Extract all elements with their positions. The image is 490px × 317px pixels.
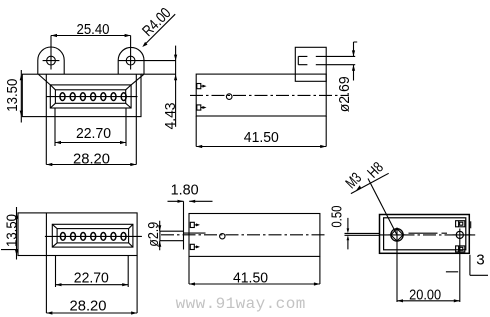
extension line across right ear bbox=[119, 60, 176, 62]
svg-text:41.50: 41.50 bbox=[244, 129, 279, 146]
right extension down bbox=[136, 256, 138, 314]
top bracket box bbox=[295, 47, 326, 81]
clip top bbox=[197, 84, 201, 89]
offset line bbox=[184, 232, 206, 234]
svg-text:13.50: 13.50 bbox=[4, 214, 21, 247]
tick 20.00 right bbox=[454, 299, 460, 302]
pin flange edge / 1.80 extension bbox=[183, 201, 185, 249]
pin block bottom-right bbox=[456, 246, 465, 252]
svg-text:25.40: 25.40 bbox=[77, 21, 110, 38]
center line bbox=[190, 94, 349, 96]
arrow 13.50b top bbox=[15, 213, 18, 219]
M3 tapped hole bbox=[391, 229, 403, 241]
arrows view1 bbox=[20, 34, 178, 166]
dim 22.70 extensions bbox=[55, 108, 126, 146]
svg-text:20.00: 20.00 bbox=[409, 287, 441, 304]
41.50 extension box bbox=[189, 256, 320, 284]
dim 2.69 line bbox=[354, 42, 358, 81]
clip top bbox=[190, 222, 194, 227]
clip bottom bbox=[197, 105, 201, 110]
stub tick right of housing bbox=[470, 221, 472, 228]
svg-text:1.80: 1.80 bbox=[171, 182, 199, 199]
svg-text:22.70: 22.70 bbox=[76, 125, 111, 142]
dim 1.80 line bbox=[168, 200, 213, 202]
digits 0000000 bbox=[60, 233, 126, 241]
clip arrow top bbox=[203, 85, 207, 88]
clip arrow bottom b bbox=[196, 245, 200, 248]
bracket slot bbox=[298, 56, 355, 64]
internal vertical bbox=[45, 213, 47, 313]
arrow 2.69 bottom bbox=[352, 65, 355, 71]
ear hole right crosshair bbox=[130, 36, 132, 70]
dim 13.50 line bbox=[20, 70, 22, 123]
arrow 28.20b right bbox=[131, 311, 137, 314]
R4.00 leader bbox=[145, 14, 175, 44]
bevel left to window corner bbox=[39, 74, 51, 85]
digit wheel line bbox=[45, 235, 142, 237]
digits 0000000 bbox=[60, 93, 126, 101]
arrow 28.20 right bbox=[130, 163, 136, 166]
upper offset center line segment bbox=[409, 232, 448, 234]
dim 28.20 line bbox=[46, 312, 137, 314]
pin block top-right bbox=[456, 221, 465, 227]
right hole bbox=[456, 231, 463, 238]
ear hole left crosshair bbox=[43, 36, 60, 70]
dim 4.43 line bbox=[175, 46, 177, 127]
svg-text:22.70: 22.70 bbox=[74, 270, 109, 287]
dim 41.50 line bbox=[196, 146, 326, 148]
flange plate outline bbox=[22, 74, 141, 116]
arrow 25.40 right bbox=[125, 34, 131, 37]
window outer frame bbox=[52, 224, 133, 247]
dim 13.50 line bbox=[16, 207, 18, 260]
tick 41.50b left bbox=[189, 282, 195, 285]
hidden body side lines / 28.20 extensions bbox=[46, 74, 136, 164]
dim 28.20 line bbox=[46, 164, 136, 166]
dim 4.43 extension from flange top bbox=[141, 73, 176, 75]
clip bottom bbox=[190, 244, 194, 249]
dim 22.70 line bbox=[56, 284, 129, 286]
tick 20.00 left bbox=[397, 299, 403, 302]
arrow 4.43 top bbox=[174, 55, 177, 61]
dim 3 lines bbox=[446, 255, 488, 276]
digit window outer frame bbox=[50, 85, 131, 108]
clip arrow top b bbox=[196, 223, 200, 226]
center line bbox=[161, 234, 326, 236]
svg-text:3: 3 bbox=[476, 251, 484, 268]
svg-text:28.20: 28.20 bbox=[70, 298, 107, 315]
svg-text:4.43: 4.43 bbox=[162, 103, 179, 130]
window corner bevels bbox=[52, 224, 133, 247]
pivot hole circle bbox=[226, 94, 232, 100]
arrow 4.43 bottom bbox=[174, 74, 177, 80]
arrow M3 leader bbox=[356, 185, 362, 191]
arrow 22.70 left bbox=[55, 141, 61, 144]
svg-text:ø2.69: ø2.69 bbox=[336, 76, 353, 112]
arrow 22.70b left bbox=[56, 283, 62, 286]
clip arrow bottom bbox=[203, 106, 207, 109]
arrow 28.20 left bbox=[46, 163, 52, 166]
arrow 13.50 bottom bbox=[20, 111, 23, 117]
M3 H8 leader to hole bbox=[368, 179, 397, 235]
svg-text:28.20: 28.20 bbox=[73, 150, 110, 167]
arrow 25.40 left bbox=[51, 34, 57, 37]
mounting ear left bbox=[38, 47, 64, 74]
arrow 22.70 right bbox=[120, 141, 126, 144]
arrow 2.69 top bbox=[352, 50, 355, 56]
pivot hole circle bbox=[220, 234, 225, 239]
arrow 1.80 right bbox=[189, 200, 195, 203]
arrow 28.20b left bbox=[46, 311, 52, 314]
svg-text:www.91way.com: www.91way.com bbox=[176, 295, 306, 313]
ear hole right bbox=[126, 56, 135, 65]
arrow 2.9 bottom bbox=[158, 241, 161, 247]
housing outer rect bbox=[380, 215, 470, 254]
arrow 0.50 bottom bbox=[347, 235, 350, 240]
svg-text:ø2.9: ø2.9 bbox=[145, 222, 162, 247]
ear hole left bbox=[47, 56, 56, 65]
M3 crosshair bbox=[389, 228, 406, 303]
arrow 2.9 top bbox=[158, 225, 161, 231]
arrow 13.50 top bbox=[20, 74, 23, 80]
svg-text:41.50: 41.50 bbox=[233, 270, 268, 287]
window corner bevels bbox=[50, 85, 131, 108]
window inner frame bbox=[57, 229, 129, 243]
dim 22.70 extensions bbox=[56, 256, 129, 288]
tick 41.50 right bbox=[320, 145, 326, 148]
tick 41.50b right bbox=[314, 282, 320, 285]
arrow 1.80 left bbox=[178, 200, 184, 203]
center line bbox=[380, 234, 475, 236]
dim 41.50 line bbox=[189, 283, 320, 285]
body outline bbox=[196, 74, 326, 116]
dim 2.9 line bbox=[159, 221, 161, 251]
bevel right to window corner bbox=[131, 74, 144, 85]
dim 25.40 line bbox=[51, 35, 131, 37]
arrow 0.50 top bbox=[347, 228, 350, 233]
body outline bbox=[18, 213, 137, 256]
0.50 offset lines bbox=[345, 233, 380, 235]
M3 hole chamfer diamond bbox=[391, 229, 403, 241]
digit window inner frame bbox=[55, 90, 125, 104]
stub line at lower left bbox=[1, 249, 18, 251]
mounting ear right bbox=[118, 47, 144, 74]
tick 41.50 left bbox=[196, 145, 202, 148]
digit wheel line bbox=[46, 96, 137, 98]
arrow R4.00 bbox=[142, 42, 147, 47]
dim 20.00 line bbox=[397, 300, 460, 302]
stroke pin bbox=[160, 231, 184, 241]
arrow 13.50b bottom bbox=[15, 250, 18, 256]
41.50 extension box bbox=[196, 116, 326, 147]
arrow 22.70b right bbox=[122, 283, 128, 286]
dim 22.70 line bbox=[55, 142, 126, 144]
svg-text:13.50: 13.50 bbox=[4, 79, 21, 112]
M3 H8 leader arrow line bbox=[351, 173, 389, 193]
svg-text:0.50: 0.50 bbox=[328, 206, 345, 228]
right hole crosshair bbox=[453, 229, 472, 303]
dim 0.50 line bbox=[347, 218, 349, 250]
housing inner rect bbox=[384, 218, 466, 250]
body outline bbox=[189, 214, 320, 257]
